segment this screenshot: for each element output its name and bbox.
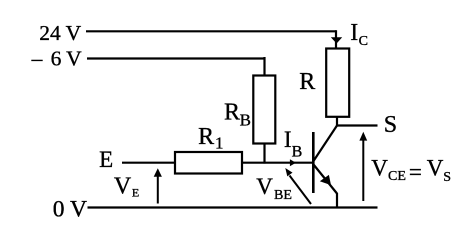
svg-text:6: 6 — [51, 47, 62, 71]
svg-text:V: V — [371, 156, 388, 181]
arrow VE — [154, 168, 162, 203]
arrow VBE — [285, 168, 311, 204]
wire base — [242, 162, 313, 164]
wire to S — [336, 124, 378, 126]
resistor RB — [253, 76, 275, 144]
svg-text:CE: CE — [388, 169, 406, 184]
wire collector junction — [336, 117, 338, 126]
arrow VCE — [359, 132, 367, 201]
svg-text:V: V — [114, 174, 132, 200]
label R_1 — [198, 124, 223, 152]
svg-text:V: V — [427, 156, 444, 181]
wire E to R1 — [122, 162, 175, 164]
arrow Ic head — [331, 37, 342, 43]
svg-text:V: V — [66, 47, 82, 71]
wire 24V rail — [86, 30, 336, 32]
transistor emitter arrowhead — [320, 175, 331, 185]
svg-text:C: C — [359, 34, 368, 49]
svg-text:R: R — [198, 124, 214, 150]
svg-text:E: E — [132, 185, 139, 199]
label R_B — [224, 99, 251, 129]
wire 24V drop to R — [335, 30, 337, 48]
arrow IB head — [290, 159, 296, 166]
svg-text:V: V — [256, 174, 273, 199]
svg-text:R: R — [224, 99, 240, 125]
wire emitter to 0V — [336, 193, 338, 207]
svg-text:0 V: 0 V — [53, 197, 87, 223]
current label I_C — [350, 20, 368, 49]
transistor collector stroke — [314, 126, 338, 162]
wire -6V drop to RB — [263, 57, 265, 76]
svg-text:–: – — [31, 47, 43, 71]
svg-text:B: B — [240, 111, 251, 130]
svg-text:S: S — [443, 170, 451, 185]
svg-text:S: S — [384, 112, 397, 138]
svg-text:BE: BE — [274, 188, 292, 203]
resistor R1 — [175, 152, 242, 174]
svg-text:R: R — [299, 69, 315, 95]
wire RB to base — [263, 144, 265, 164]
resistor R — [326, 49, 349, 117]
svg-text:B: B — [292, 144, 303, 161]
svg-text:=: = — [409, 159, 422, 184]
transistor Q1 base bar — [312, 132, 315, 193]
transistor emitter stroke — [314, 165, 338, 194]
svg-text:1: 1 — [215, 133, 224, 152]
svg-text:24 V: 24 V — [39, 21, 81, 45]
label V_BE — [256, 174, 292, 203]
svg-text:I: I — [284, 127, 292, 152]
wire -6V rail — [87, 57, 265, 59]
current label I_B — [284, 127, 302, 161]
svg-text:E: E — [99, 147, 113, 172]
label V_CE = V_S — [371, 156, 451, 185]
net 0V rail — [88, 206, 378, 208]
label V_E — [114, 174, 139, 200]
svg-text:I: I — [350, 20, 358, 46]
